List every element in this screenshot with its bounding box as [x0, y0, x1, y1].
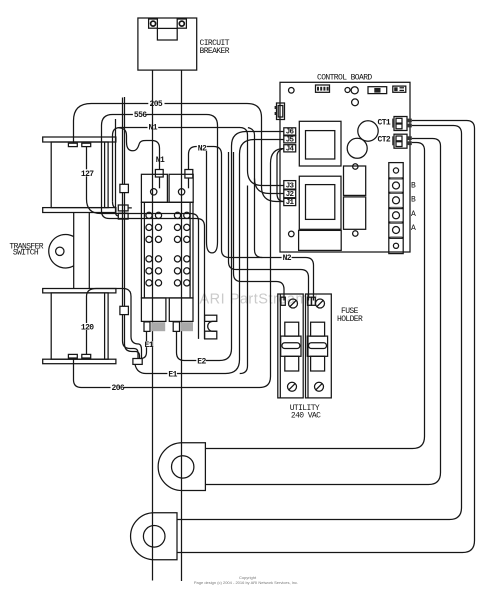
svg-text:N1: N1 [149, 123, 158, 132]
switch SW1 [368, 87, 387, 94]
wire coil127 exit to bracket right spine [102, 211, 205, 339]
wire 205 (coil127 T1 to J1) [74, 104, 284, 202]
svg-text:E2: E2 [197, 357, 206, 366]
wire plug to lower connector [123, 193, 125, 307]
CT2 connector [392, 134, 412, 148]
fuse holder module 2 [306, 294, 332, 398]
fuse holder module 1 [278, 294, 303, 398]
wire CT loop1 upperCT top lead to CT2 conn lower pin [205, 143, 424, 449]
svg-text:J6: J6 [286, 129, 295, 137]
svg-text:J2: J2 [286, 191, 295, 199]
wire N1 spade tail [113, 202, 132, 208]
svg-text:J1: J1 [286, 199, 295, 207]
svg-text:127: 127 [81, 170, 94, 179]
label E1 small [144, 341, 154, 350]
current transformer upper [158, 443, 205, 491]
label E2 [196, 357, 206, 366]
transformer circles [358, 121, 378, 141]
relay K3 bottom [299, 230, 342, 250]
svg-text:Copyright: Copyright [239, 575, 257, 580]
label 127 [80, 169, 94, 179]
DIP header [316, 85, 330, 92]
svg-text:CT2: CT2 [378, 136, 391, 145]
transfer switch coil 120 [43, 289, 116, 364]
svg-text:120: 120 [81, 324, 94, 333]
connector J4 [284, 145, 296, 152]
svg-text:N1: N1 [156, 156, 165, 165]
label 206 [111, 384, 125, 393]
svg-text:E1: E1 [168, 370, 177, 379]
svg-text:Page design (c) 2004 - 2016 by: Page design (c) 2004 - 2016 by ARI Netwo… [194, 580, 298, 585]
svg-text:SWITCH: SWITCH [13, 249, 39, 258]
capacitor C2 [344, 197, 366, 229]
wire J2 branch [255, 179, 284, 194]
svg-text:556: 556 [134, 111, 147, 120]
label 556 [134, 111, 147, 120]
wire lower connector to lug [123, 315, 139, 359]
wire CT loop4 lowerCT bottom lead to CT1 conn upper pin [177, 121, 475, 553]
circuit breaker CB1 [138, 18, 197, 70]
contactor body [141, 170, 193, 332]
component top right [393, 86, 406, 92]
spade terminal 1 [118, 205, 128, 211]
wire N1 top (spade to J3) [113, 128, 284, 202]
wire coil120 T2 to lug [87, 289, 142, 359]
spade terminal 2 [118, 213, 128, 219]
connector J2 [284, 190, 296, 198]
wire N2 (contactor post2 to fuse module2 right) [189, 147, 314, 301]
svg-text:N2: N2 [283, 254, 292, 263]
label 205 [150, 100, 163, 109]
wire N1 branch to contactor post1 [118, 128, 159, 170]
WIRES-LAYER [74, 70, 475, 581]
plug connector P1 [120, 184, 128, 192]
wire breaker line2 (x=181 down through upper CT) [181, 70, 183, 581]
label E1 lower [167, 370, 177, 379]
current transformer lower [131, 513, 177, 560]
CT1 connector [392, 117, 412, 131]
mounting holes [289, 88, 295, 94]
wire 556 (coil127 interior, U-loop beside contactor) [102, 115, 218, 253]
svg-text:J5: J5 [286, 137, 295, 145]
wire E1 post to lug [141, 331, 147, 358]
svg-text:240 VAC: 240 VAC [291, 412, 321, 421]
terminal strip TB1 [389, 163, 403, 254]
connector J6 [284, 128, 296, 135]
wire CT loop3 lowerCT top lead to CT1 conn lower pin [177, 126, 462, 520]
wire plug pair from top [123, 97, 125, 184]
wire J4-J1 link [277, 149, 284, 202]
svg-text:E1: E1 [145, 341, 154, 350]
wire 206 (coil120 T1 to J4) [74, 149, 284, 388]
svg-text:205: 205 [150, 100, 163, 109]
wire coil127 T2 down through coil to bracket left spine [87, 147, 199, 339]
svg-text:CONTROL BOARD: CONTROL BOARD [317, 74, 372, 83]
wire breaker line1 (x=152 down through lower CT) [152, 70, 154, 580]
connector J5 [284, 136, 296, 143]
wire J3 branch down to E1 line [240, 186, 248, 374]
relay K2 [299, 176, 341, 229]
svg-text:HOLDER: HOLDER [337, 315, 363, 324]
label N1 top [149, 123, 158, 132]
transfer switch actuator bar [49, 213, 90, 289]
label 120 [80, 323, 94, 333]
control board outline [280, 82, 410, 252]
svg-text:CT1: CT1 [378, 119, 391, 128]
svg-text:J3: J3 [286, 183, 295, 191]
wire feeder to fuse module1 terminal [229, 152, 309, 301]
connector J3 [284, 181, 296, 190]
transfer switch coil 127 [43, 137, 116, 213]
connector P2 [120, 306, 128, 314]
wire J2 feeder to fuse module2 left [248, 128, 262, 258]
svg-text:J4: J4 [286, 145, 295, 153]
wire feeder to fuse module1 right [234, 152, 285, 301]
svg-text:N2: N2 [198, 144, 207, 153]
label N1 lower [156, 156, 165, 165]
mounting bracket at contactor bottom right [205, 315, 217, 339]
capacitor C1 [344, 166, 366, 195]
wire lower connector to lug 2 [125, 315, 140, 359]
connector J1 [284, 198, 296, 205]
wire E1 (lug to J5) [135, 140, 284, 374]
svg-text:BREAKER: BREAKER [200, 47, 230, 56]
left edge connector [275, 103, 285, 120]
svg-text:206: 206 [112, 384, 125, 393]
wire E2 (contactor bottom post2 to J6) [177, 132, 284, 361]
label N2 bottom [282, 254, 292, 263]
contactor terminal dots [146, 212, 190, 286]
wire to spade terminal 2 [116, 119, 119, 216]
test points [345, 88, 350, 93]
relay K1 [299, 121, 341, 166]
label N2 top [197, 144, 207, 153]
lug terminal [133, 359, 142, 365]
wire CT loop2 upperCT bottom lead to CT2 conn upper pin [205, 139, 440, 485]
